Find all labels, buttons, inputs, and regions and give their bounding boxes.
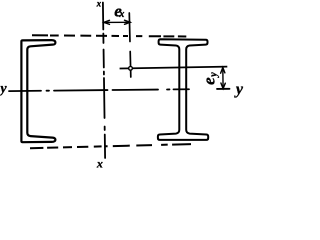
- svg-text:y: y: [0, 81, 7, 96]
- svg-text:e: e: [200, 77, 219, 85]
- svg-text:x: x: [118, 9, 124, 20]
- svg-text:y: y: [234, 81, 244, 98]
- svg-text:y: y: [208, 72, 219, 78]
- svg-text:x: x: [96, 156, 103, 170]
- svg-text:x: x: [96, 0, 102, 9]
